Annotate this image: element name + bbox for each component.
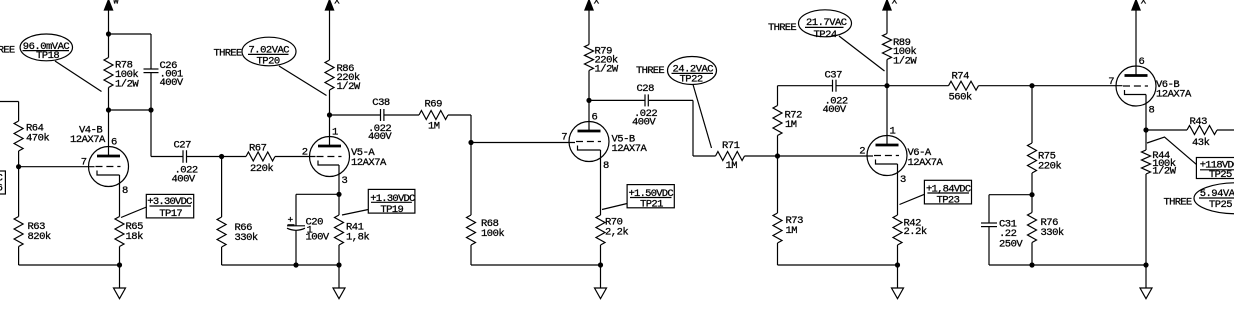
wire C20 top lead (295, 194, 297, 226)
wire grid V5-B (471, 142, 575, 144)
V5-A grid (317, 156, 342, 158)
svg-text:TP16: TP16 (0, 183, 3, 195)
resistor R69 (419, 111, 448, 120)
svg-text:12AX7A: 12AX7A (612, 143, 648, 155)
wire V5-B cathode lead (600, 150, 602, 215)
wire corner down (692, 100, 694, 156)
wire ground stub stage3 (600, 265, 602, 288)
node ground stage1 (117, 262, 122, 267)
resistor R73 (777, 156, 779, 213)
node V4-B grid junction (16, 164, 21, 169)
wire junction to C26 branch (109, 109, 152, 111)
wire V6-A plate lead (886, 86, 888, 145)
svg-text:THREE: THREE (636, 65, 664, 77)
triode V6-A envelope (867, 136, 907, 176)
wire R63 bottom (18, 247, 20, 266)
wire supply W to node (108, 10, 110, 58)
svg-text:330k: 330k (1041, 227, 1064, 239)
V4-B cathode (97, 171, 120, 176)
resistor R42 (893, 215, 902, 245)
triode V5-B envelope (569, 122, 609, 162)
node R78/C26/plate junction (106, 107, 111, 112)
wire to R43 (1146, 129, 1187, 131)
resistor R72 (777, 86, 779, 106)
svg-text:7: 7 (561, 132, 567, 144)
resistor R76 (1031, 195, 1033, 213)
svg-text:TP17: TP17 (159, 208, 182, 220)
svg-text:100k: 100k (481, 228, 504, 240)
wire R78 bottom (108, 88, 110, 111)
svg-text:8: 8 (603, 160, 609, 172)
wire supply X stage3 (588, 10, 590, 45)
V5-A plate (318, 145, 341, 148)
svg-text:TP25: TP25 (1209, 169, 1232, 181)
svg-text:TP18: TP18 (36, 50, 59, 62)
capacitor C20 (287, 225, 305, 227)
wire R42 bottom (897, 245, 899, 265)
node C26 bottom junction (148, 107, 153, 112)
pointer line TP23 (900, 194, 925, 204)
node ground stage3 (598, 262, 603, 267)
svg-text:250V: 250V (999, 239, 1023, 251)
resistor R86 (325, 60, 334, 90)
resistor R64 (14, 121, 23, 151)
pointer line TP19 (342, 210, 368, 216)
pointer line TP17 (121, 207, 147, 218)
resistor R68 (470, 143, 472, 216)
svg-text:470k: 470k (26, 133, 49, 145)
wire grid V4-B (19, 166, 95, 168)
V6-A grid (874, 155, 899, 157)
svg-text:12AX7A: 12AX7A (70, 134, 106, 146)
wire V5-A cathode lead (338, 165, 340, 194)
svg-text:7: 7 (81, 157, 87, 169)
pointer line TP18 (55, 61, 102, 92)
svg-text:8: 8 (1149, 105, 1155, 117)
svg-text:R43: R43 (1190, 116, 1208, 128)
partial box left edge (0, 171, 5, 194)
ground (892, 288, 904, 299)
V6-A cathode (876, 160, 898, 165)
capacitor C31 (981, 222, 997, 224)
test point box TP19 (368, 189, 415, 213)
wire to R71 (693, 155, 716, 157)
wire C37 branch (778, 85, 833, 87)
wire C31 bottom lead (988, 227, 990, 265)
test point oval TP22 (668, 57, 717, 85)
wire V5-B plate lead (588, 100, 590, 131)
wire V6-A cathode lead (897, 164, 899, 215)
triode V5-A envelope (310, 137, 350, 177)
resistor R78 (104, 58, 113, 88)
svg-text:330k: 330k (235, 232, 258, 244)
svg-text:TP19: TP19 (380, 204, 403, 216)
wire C38 to R69 (384, 114, 419, 116)
svg-text:TP24: TP24 (814, 29, 837, 41)
svg-text:8: 8 (122, 185, 128, 197)
wire plate to C38 (330, 114, 381, 116)
svg-text:220k: 220k (1038, 161, 1061, 173)
wire R79 bottom (588, 71, 590, 101)
node W/C26 junction (106, 31, 111, 36)
svg-text:X: X (594, 0, 600, 7)
wire input top left (0, 101, 19, 103)
wire V6-B cathode lead (1145, 95, 1147, 131)
svg-text:400V: 400V (632, 117, 656, 129)
V6-B cathode (1125, 90, 1147, 95)
power arrow X (883, 0, 892, 10)
svg-text:C28: C28 (637, 83, 655, 95)
svg-text:2: 2 (859, 146, 865, 158)
wire to C31 (989, 194, 1032, 196)
resistor R66 (221, 157, 223, 218)
wire C31 top lead (988, 195, 990, 223)
wire ground stub stage2 (338, 265, 340, 288)
svg-text:C37: C37 (825, 70, 843, 82)
wire ground rail stage1 (19, 264, 120, 266)
test point box TP23 (924, 180, 971, 204)
svg-text:1,8k: 1,8k (346, 232, 369, 244)
wire ground stub stage5 (1145, 265, 1147, 288)
svg-text:1/2W: 1/2W (893, 56, 917, 68)
node R44 ground junction (1143, 262, 1148, 267)
wire R69 to corner (448, 114, 471, 116)
svg-text:6: 6 (592, 112, 598, 124)
svg-text:TP23: TP23 (937, 194, 960, 206)
svg-text:1: 1 (890, 126, 896, 138)
wire R71 to grid V6-A (745, 155, 874, 157)
svg-text:R74: R74 (952, 71, 970, 83)
ground (114, 288, 126, 299)
svg-text:400V: 400V (368, 131, 392, 143)
wire R41 bottom (338, 245, 340, 265)
ground (595, 288, 607, 299)
wire ground rail stage4 (778, 264, 898, 266)
power arrow X (325, 0, 334, 10)
V4-B grid (96, 166, 121, 168)
svg-text:2.2k: 2.2k (904, 226, 927, 238)
V5-B plate (578, 130, 601, 133)
node V5-B plate junction (586, 98, 591, 103)
svg-text:3: 3 (342, 175, 348, 187)
wire ground stub stage4 (897, 265, 899, 288)
svg-text:1M: 1M (785, 119, 797, 131)
power arrow X (585, 0, 594, 10)
wire R89 bottom (886, 60, 888, 86)
node C20 tap (336, 192, 341, 197)
V4-B plate (97, 155, 120, 158)
svg-text:43k: 43k (1192, 137, 1210, 149)
svg-text:TP21: TP21 (640, 199, 663, 211)
svg-text:X: X (334, 0, 340, 7)
capacitor C26 (144, 68, 159, 70)
svg-text:C27: C27 (174, 140, 192, 152)
svg-text:C38: C38 (372, 97, 390, 109)
triode V4-B envelope (89, 147, 129, 187)
wire ground rail stage3 (471, 264, 601, 266)
wire supply X stage2 (329, 10, 331, 60)
ground (333, 288, 345, 299)
wire C37 to plate node (836, 85, 887, 87)
svg-text:1M: 1M (726, 160, 738, 172)
wire R70 bottom (600, 245, 602, 265)
svg-text:1/2W: 1/2W (337, 81, 361, 93)
test point oval TP24 (799, 10, 852, 37)
svg-text:2: 2 (302, 147, 308, 159)
svg-text:TP20: TP20 (257, 56, 280, 68)
wire C26 top lead (150, 34, 152, 69)
resistor R70 (596, 215, 605, 245)
wire R86 bottom (329, 90, 331, 115)
svg-text:1M: 1M (786, 225, 798, 237)
node R76 ground junction (1029, 262, 1034, 267)
wire plate to C28 (589, 99, 646, 101)
svg-text:12AX7A: 12AX7A (908, 157, 944, 169)
svg-text:12AX7A: 12AX7A (1156, 89, 1192, 101)
svg-text:1/2W: 1/2W (1152, 166, 1176, 178)
wire ground rail stage2 (222, 264, 339, 266)
pointer line TP21 (602, 204, 627, 210)
wire V4-B cathode lead (119, 175, 121, 217)
wire corner down to V5-B grid line (470, 115, 472, 143)
svg-text:2,2k: 2,2k (605, 227, 628, 239)
V6-B grid (1123, 85, 1148, 87)
wire C26 bottom lead (150, 73, 152, 110)
wire ground rail stage5 (989, 264, 1146, 266)
node ground stage2 (336, 262, 341, 267)
test point box TP21 (627, 185, 674, 208)
wire ground stub stage1 (119, 265, 121, 288)
svg-text:R69: R69 (425, 99, 443, 111)
svg-text:R67: R67 (249, 143, 267, 155)
svg-text:100V: 100V (306, 232, 330, 244)
capacitor C38 (380, 109, 382, 121)
power arrow W (104, 0, 113, 10)
svg-text:560k: 560k (949, 92, 972, 104)
svg-text:THREE: THREE (768, 22, 796, 34)
svg-text:18k: 18k (126, 231, 144, 243)
test point box TP17 (146, 194, 193, 218)
resistor R63 (14, 217, 23, 247)
wire V5-A plate lead (329, 115, 331, 146)
resistor R89 (883, 34, 892, 60)
svg-text:THREE: THREE (0, 45, 15, 57)
wire V4-B plate lead (108, 110, 110, 156)
resistor R71 (716, 152, 745, 161)
resistor R65 (115, 217, 124, 247)
wire V5-A cathode to R41 (338, 194, 340, 215)
wire grid V6-B (1032, 85, 1123, 87)
resistor R41 (335, 215, 344, 245)
svg-text:400V: 400V (172, 174, 196, 186)
ground (1140, 288, 1152, 299)
resistor R74 (949, 81, 979, 90)
node V6-B cathode junction (1143, 127, 1148, 132)
wire R74 to grid node (979, 85, 1033, 87)
pointer line TP22 (693, 85, 712, 149)
wire to C20 (296, 193, 339, 195)
svg-text:1M: 1M (428, 121, 440, 133)
svg-text:X: X (1141, 0, 1147, 7)
wire to C27 (151, 156, 183, 158)
capacitor C27 (182, 150, 184, 163)
V5-A cathode (318, 161, 339, 166)
svg-text:TP22: TP22 (680, 74, 703, 86)
svg-text:7: 7 (1108, 76, 1114, 88)
svg-text:1/2W: 1/2W (595, 64, 619, 76)
power arrow X (1132, 0, 1141, 10)
capacitor C28 (644, 94, 646, 106)
node V5-A plate junction (327, 112, 332, 117)
wire supply X stage4 (886, 10, 888, 34)
node C20 ground junction (293, 262, 298, 267)
resistor R67 (246, 152, 275, 161)
resistor R75 (1031, 86, 1033, 143)
svg-text:6: 6 (111, 137, 117, 149)
svg-text:3: 3 (900, 174, 906, 186)
svg-text:220k: 220k (250, 163, 273, 175)
svg-text:R71: R71 (722, 140, 740, 152)
svg-text:X: X (892, 0, 898, 7)
wire C27 to R67 (187, 156, 247, 158)
pointer line TP20 (279, 66, 327, 96)
test point box TP25 (1196, 158, 1234, 179)
svg-text:1/2W: 1/2W (115, 79, 139, 91)
wire R64 to node (18, 151, 20, 217)
wire plate node to R74 (887, 85, 949, 87)
svg-text:W: W (113, 0, 119, 7)
wire R43 to edge (1217, 129, 1234, 131)
node ground stage4 (895, 262, 900, 267)
svg-text:400V: 400V (823, 104, 847, 116)
svg-text:6: 6 (1139, 56, 1145, 68)
node R66 tap (219, 154, 224, 159)
svg-text:THREE: THREE (1164, 196, 1192, 208)
pointer line TP24 (839, 36, 885, 71)
wire R67 to V5-A grid (275, 156, 316, 158)
V5-B cathode (578, 146, 601, 151)
node V6-A plate junction (884, 83, 889, 88)
capacitor C37 (832, 80, 834, 92)
svg-text:THREE: THREE (214, 48, 242, 60)
svg-text:+: + (288, 215, 294, 226)
test point oval TP18 (20, 34, 72, 61)
test point oval TP20 (242, 37, 296, 66)
wire C28 to corner (649, 99, 693, 101)
node R75 junction (1029, 83, 1034, 88)
svg-text:TP25: TP25 (1209, 199, 1232, 211)
node R68 junction (468, 140, 473, 145)
svg-text:1: 1 (332, 127, 338, 139)
V6-A plate (876, 144, 899, 147)
V6-B plate (1125, 74, 1148, 77)
pointer line TP25 (1147, 137, 1196, 164)
resistor R43 (1187, 126, 1217, 135)
test point oval TP25AC (1194, 183, 1234, 214)
svg-text:820k: 820k (28, 231, 51, 243)
wire R65 bottom (119, 247, 121, 266)
svg-text:12AX7A: 12AX7A (351, 157, 387, 169)
resistor R44 (1145, 130, 1147, 150)
wire to R64 (18, 102, 20, 122)
wire supply to V6-B plate (1135, 10, 1137, 76)
svg-text:400V: 400V (160, 77, 184, 89)
resistor R79 (585, 45, 594, 71)
wire C20 bottom lead (295, 231, 297, 265)
wire to C26 top (109, 33, 152, 35)
node R75/R76/C31 junction (1029, 192, 1034, 197)
node R72/R73 junction (775, 153, 780, 158)
V5-B grid (576, 141, 601, 143)
wire C26 branch down to C27 line (150, 110, 152, 157)
triode V6-B envelope (1116, 66, 1156, 106)
